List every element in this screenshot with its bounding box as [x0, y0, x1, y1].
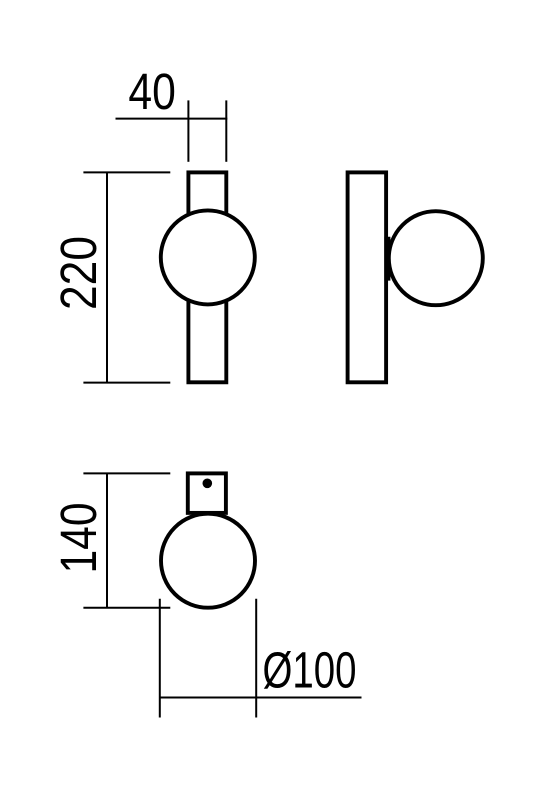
dimension 220: vertical dimension line	[106, 172, 108, 382]
side view: wall plate rectangle	[348, 172, 387, 382]
svg-text:140: 140	[50, 503, 107, 574]
dimension 220: top tick	[83, 171, 170, 173]
top view: sphere diffuser circle	[161, 514, 255, 608]
dimension Ø100: right extension line	[255, 599, 257, 718]
dimension Ø100: left extension line	[159, 599, 161, 718]
dimension 40: right extension line	[225, 100, 227, 161]
svg-text:Ø100: Ø100	[263, 641, 357, 698]
front view: wall plate rectangle	[188, 172, 226, 382]
svg-text:40: 40	[128, 63, 176, 120]
dimension 40: dimension line	[116, 118, 228, 120]
front view: sphere diffuser circle	[161, 210, 255, 304]
side view: sphere-to-plate contact bar	[384, 237, 390, 281]
dimension Ø100: dimension line	[160, 697, 362, 699]
top view: cable entry dot	[203, 479, 213, 489]
dimension 140: bottom tick	[83, 607, 170, 609]
dimension 220: bottom tick	[83, 382, 170, 384]
dimension 40: left extension line	[187, 100, 189, 161]
dimension 140: top tick	[83, 472, 170, 474]
side view: sphere diffuser circle	[389, 211, 483, 305]
svg-text:220: 220	[50, 236, 107, 310]
top view: mounting box square	[188, 473, 226, 513]
dimension 140: vertical dimension line	[106, 473, 108, 607]
